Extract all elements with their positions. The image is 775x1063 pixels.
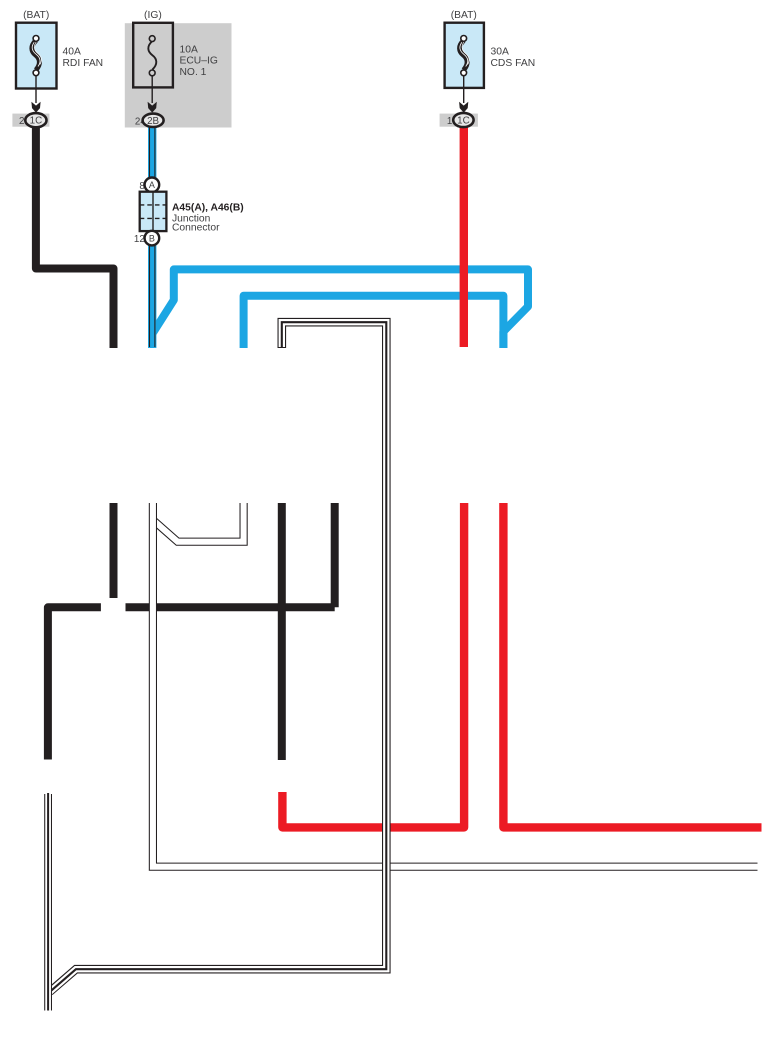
svg-text:10A: 10A	[180, 44, 198, 55]
wire R from motor A59 pin2 to relay3 pin3 connector	[282, 503, 464, 827]
wire B octagon left branch down to motor A58 pin 2	[48, 607, 101, 759]
connector 1C (fuse F1)	[25, 113, 46, 127]
wire B from fuse 40A to relay pin 3 connector	[36, 124, 114, 348]
wire L-B from fuse ECU-IG connector 2B down to junction connector A	[150, 125, 155, 179]
junction connector A45(A)/A46(B)	[134, 178, 244, 246]
svg-text:A: A	[149, 180, 155, 190]
wire W-B from relay2 pin5 connector right, down and to ground bundle	[49, 322, 386, 992]
svg-text:RDI FAN: RDI FAN	[63, 58, 104, 69]
connector 2B (fuse F2)	[143, 114, 164, 127]
gray background box around ECU-IG fuse	[125, 23, 232, 127]
svg-text:30A: 30A	[491, 47, 509, 58]
svg-text:Connector: Connector	[172, 223, 220, 234]
connector 1C (fuse F3)	[453, 113, 473, 127]
wire B from relay2 pin4 connector down to junction line	[331, 503, 339, 607]
svg-text:2B: 2B	[147, 116, 159, 127]
wire R from fuse CDS FAN down to relay3 pin5 connector	[460, 125, 468, 347]
wire B from relay1 pin5 connector to junction octagon	[110, 503, 118, 598]
wire W from relay1 pin2 connector down and right to edge	[153, 502, 759, 867]
svg-text:NO. 1: NO. 1	[180, 67, 207, 78]
gray band behind connector 1C of RDI FAN fuse	[12, 114, 49, 127]
wire R from relay3 pin2 connector to right edge	[503, 503, 761, 827]
fuse F3 30A CDS FAN	[445, 10, 536, 127]
fuse F1 40A RDI FAN	[16, 10, 103, 127]
wire B from relay2 pin3 connector down to motor A59 pin 1	[278, 503, 286, 760]
svg-text:2: 2	[19, 116, 24, 127]
svg-text:B: B	[149, 234, 155, 244]
wire L-B from junction connector B down to relay1 pin1 connector	[150, 245, 155, 349]
svg-text:(BAT): (BAT)	[23, 10, 49, 21]
svg-text:40A: 40A	[63, 47, 81, 58]
svg-text:(IG): (IG)	[144, 10, 162, 21]
gray band behind connector 1C of CDS FAN fuse	[440, 114, 478, 127]
svg-text:(BAT): (BAT)	[451, 10, 477, 21]
svg-text:12: 12	[134, 234, 145, 245]
svg-text:ECU–IG: ECU–IG	[180, 56, 218, 67]
wire L lower: relay2 pin1 to relay3 pin1	[244, 296, 504, 348]
svg-text:1: 1	[447, 116, 452, 127]
svg-text:1C: 1C	[457, 116, 470, 127]
svg-text:1C: 1C	[30, 116, 43, 127]
wire W-B from motor A58 pin1 down to ground A1	[44, 793, 52, 1011]
svg-text:CDS FAN: CDS FAN	[491, 58, 536, 69]
wire B octagon right branch along y=607	[126, 603, 335, 611]
svg-text:A45(A), A46(B): A45(A), A46(B)	[172, 202, 244, 213]
fuse F2 10A ECU-IG NO.1	[133, 10, 218, 127]
wire L upper: junction connector branch to relay3 coil	[152, 269, 528, 348]
wire W branch from relay2 pin2 connector merging into W wire	[154, 503, 244, 542]
